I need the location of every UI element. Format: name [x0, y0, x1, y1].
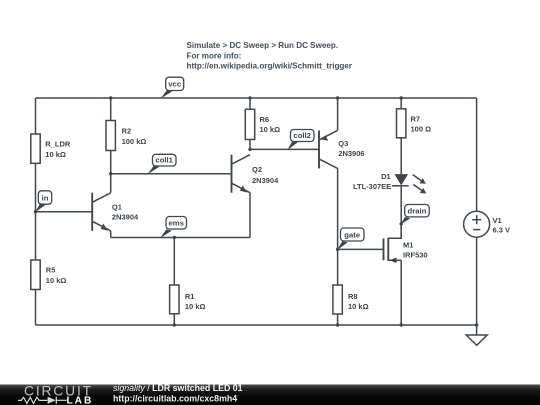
wire bottom rail ground net — [36, 324, 477, 326]
resistor R7 — [397, 109, 432, 138]
svg-text:gate: gate — [344, 230, 361, 239]
junction dot coll2 — [248, 148, 251, 151]
node label coll1 — [148, 154, 177, 174]
svg-text:vcc: vcc — [168, 79, 182, 88]
wire vcc to R7 — [400, 98, 402, 109]
wire vcc to R2 — [110, 98, 112, 121]
junction dot drain node — [400, 222, 403, 225]
svg-text:10 kΩ: 10 kΩ — [348, 302, 369, 311]
junction dot R6/vcc — [248, 96, 251, 99]
wire R8 to bottom rail — [337, 314, 339, 325]
svg-text:R_LDR: R_LDR — [45, 140, 71, 149]
svg-text:10 kΩ: 10 kΩ — [46, 276, 67, 285]
junction dot R2/vcc — [109, 96, 112, 99]
junction dot R7/vcc — [400, 96, 403, 99]
svg-text:Q1: Q1 — [112, 203, 122, 212]
svg-text:IRF530: IRF530 — [403, 251, 428, 260]
transistor M1 NMOS IRF530 — [384, 224, 428, 263]
svg-text:100 Ω: 100 Ω — [411, 125, 432, 134]
wire R7 to D1 anode — [400, 138, 402, 174]
svg-text:R2: R2 — [122, 127, 132, 136]
svg-text:LAB: LAB — [67, 395, 92, 405]
node label gate — [337, 228, 364, 250]
node label ems — [160, 217, 187, 239]
wire Q3 emitter lead to vcc — [337, 98, 339, 130]
resistor R5 — [31, 260, 67, 290]
junction dot V1/ground — [475, 323, 478, 326]
svg-text:10 kΩ: 10 kΩ — [260, 125, 281, 134]
junction dot in node — [34, 210, 37, 213]
wire vcc to R6 — [249, 98, 251, 109]
svg-text:signality / LDR switched LED 0: signality / LDR switched LED 01 — [113, 383, 243, 393]
svg-text:2N3904: 2N3904 — [112, 213, 139, 222]
svg-text:ems: ems — [169, 219, 184, 228]
wire gate rail — [338, 248, 384, 250]
footer bar — [0, 385, 540, 405]
junction dot M1 source/ground — [400, 323, 403, 326]
wire in node to R5 — [35, 212, 37, 260]
wire R5 to bottom rail — [35, 290, 37, 326]
resistor R6 — [245, 109, 280, 139]
junction dot R1/ground — [173, 323, 176, 326]
resistor R8 — [333, 285, 369, 314]
wire V1 to bottom rail — [476, 237, 478, 325]
svg-text:For more info:: For more info: — [187, 51, 242, 60]
svg-text:M1: M1 — [403, 240, 413, 249]
wire left branch upper (vcc to R_LDR) — [35, 98, 37, 134]
resistor R1 — [170, 285, 206, 314]
svg-text:R7: R7 — [411, 114, 421, 123]
CircuitLab logo resistor-diode glyph — [18, 397, 67, 404]
node label vcc — [160, 77, 183, 99]
wire M1 source to bottom rail — [400, 260, 402, 325]
wire Q3 collector lead to gate node — [337, 168, 339, 249]
svg-text:2N3904: 2N3904 — [252, 176, 279, 185]
svg-text:coll2: coll2 — [293, 131, 311, 140]
node label coll2 — [287, 130, 314, 151]
junction dot coll1 — [109, 172, 112, 175]
svg-text:R1: R1 — [185, 292, 195, 301]
svg-text:drain: drain — [408, 206, 427, 215]
transistor Q1 NPN 2N3904 — [92, 193, 139, 231]
resistor R2 — [106, 121, 146, 151]
ground symbol — [466, 335, 487, 345]
wire coll2 rail — [250, 148, 319, 150]
wire R_LDR to in node — [35, 163, 37, 212]
wire vcc to V1 — [476, 98, 478, 211]
svg-text:2N3906: 2N3906 — [338, 149, 364, 158]
svg-text:LTL-307EE: LTL-307EE — [353, 182, 391, 191]
CircuitLab logo wordmark — [24, 384, 92, 405]
transistor Q2 NPN 2N3904 — [232, 155, 280, 193]
svg-text:in: in — [42, 193, 49, 202]
diode D1 LED LTL-307EE — [353, 172, 426, 194]
wire Q1 base — [36, 211, 93, 213]
wire Q1 collector lead — [110, 174, 112, 193]
resistor R_LDR — [31, 134, 71, 163]
wire D1 cathode to M1 drain — [400, 186, 402, 239]
wire R6 to coll2 node — [249, 140, 251, 150]
wire ems to R1 — [173, 238, 175, 286]
junction dot Q3 emitter/vcc — [336, 96, 339, 99]
voltage source V1 — [464, 211, 510, 237]
svg-text:Simulate > DC Sweep > Run DC S: Simulate > DC Sweep > Run DC Sweep. — [187, 41, 339, 50]
svg-text:coll1: coll1 — [155, 156, 173, 165]
footer title text — [113, 383, 243, 403]
svg-text:6.3 V: 6.3 V — [493, 225, 511, 234]
wire top rail vcc net — [36, 97, 477, 99]
svg-text:http://en.wikipedia.org/wiki/S: http://en.wikipedia.org/wiki/Schmitt_tri… — [187, 62, 353, 71]
wire coll1 rail — [111, 173, 232, 175]
wire gate node to R8 — [337, 249, 339, 285]
wire R2 to coll1 rail — [110, 151, 112, 174]
svg-text:R8: R8 — [348, 292, 358, 301]
node label drain — [401, 205, 430, 225]
svg-text:Q2: Q2 — [252, 165, 262, 174]
junction dot ems/R1 — [173, 236, 176, 239]
svg-text:Q3: Q3 — [338, 139, 348, 148]
wire ground stem — [476, 325, 478, 335]
wire Q2 emitter lead — [249, 193, 251, 238]
svg-text:R6: R6 — [260, 115, 270, 124]
svg-text:10 kΩ: 10 kΩ — [45, 150, 66, 159]
svg-text:R5: R5 — [46, 266, 56, 275]
wire R1 to bottom rail — [173, 314, 175, 325]
svg-text:100 kΩ: 100 kΩ — [122, 137, 147, 146]
svg-text:10 kΩ: 10 kΩ — [185, 302, 206, 311]
junction dot gate node — [336, 248, 339, 251]
svg-text:D1: D1 — [381, 172, 391, 181]
annotation note text — [187, 41, 353, 71]
transistor Q3 PNP 2N3906 — [319, 130, 365, 168]
junction dot R8/ground — [336, 323, 339, 326]
wire ems rail — [111, 237, 250, 239]
svg-text:V1: V1 — [493, 216, 502, 225]
wire Q1 emitter lead — [110, 231, 112, 238]
svg-text:http://circuitlab.com/cxc8mh4: http://circuitlab.com/cxc8mh4 — [113, 393, 237, 403]
node label in — [35, 191, 52, 213]
